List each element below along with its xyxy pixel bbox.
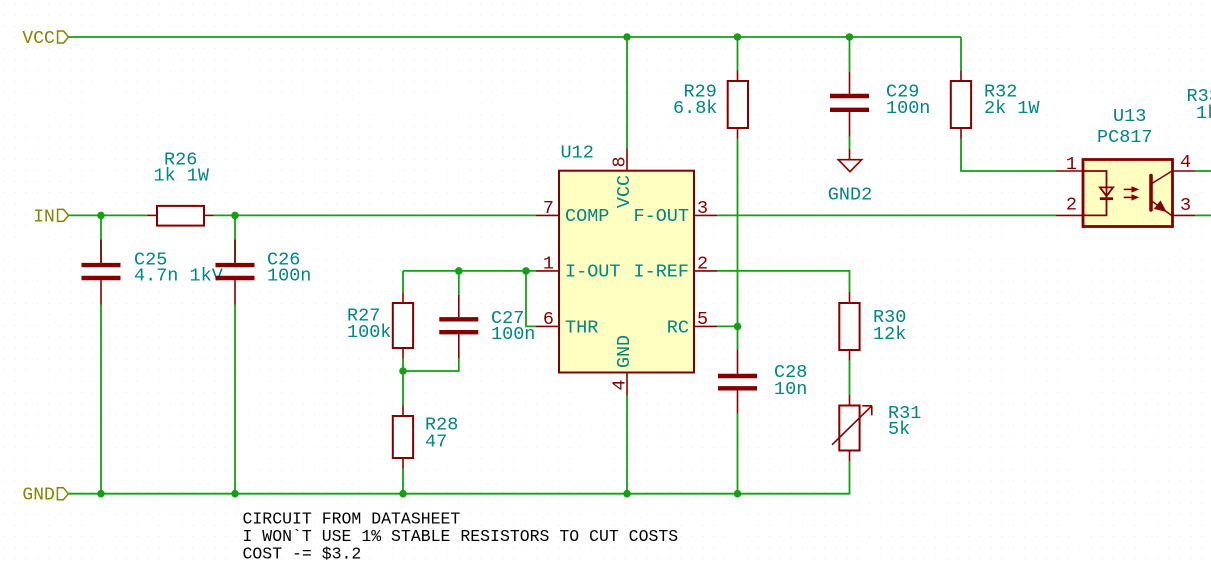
- node junction IN/C25: [97, 212, 105, 220]
- node junction GND/U12 pin4: [623, 490, 631, 498]
- global label VCC: [22, 29, 68, 49]
- U13 light arrows: [1124, 187, 1138, 200]
- U12 pin 4 GND: [610, 335, 636, 396]
- U13 pin 2: [1056, 195, 1083, 216]
- U12 pin 2 I-REF: [633, 254, 717, 283]
- svg-text:6.8k: 6.8k: [673, 98, 717, 119]
- wire F-OUT to U13 pin2: [717, 214, 1056, 216]
- U12 pin 7 COMP: [536, 198, 609, 227]
- wire R26 to U12 pin7: [214, 214, 537, 216]
- svg-text:I-REF: I-REF: [633, 262, 689, 283]
- node junction VCC/C29: [846, 33, 854, 41]
- svg-text:F-OUT: F-OUT: [633, 206, 689, 227]
- wire U12 pin8 riser: [626, 37, 628, 149]
- U12 pin 8 VCC: [610, 149, 636, 209]
- wire I-OUT line: [403, 270, 536, 272]
- wire RC to junction: [717, 325, 738, 327]
- wire U13 pin4 out: [1195, 170, 1211, 172]
- op-amp U12 body: [559, 143, 694, 373]
- wire VCC rail: [69, 36, 962, 38]
- svg-text:3: 3: [697, 198, 708, 219]
- node junction VCC/R29: [734, 33, 742, 41]
- svg-text:4.7n 1kV: 4.7n 1kV: [134, 266, 223, 287]
- svg-text:1: 1: [1066, 154, 1077, 175]
- svg-text:2: 2: [697, 254, 708, 275]
- wire U13 pin3 out: [1195, 214, 1211, 216]
- wire R29 top: [737, 37, 739, 71]
- capacitor C27: [439, 271, 535, 358]
- wire C28 to GND rail: [737, 414, 739, 494]
- svg-text:10n: 10n: [774, 379, 807, 400]
- wire R32 to U13 pin1: [961, 139, 1056, 172]
- svg-text:100n: 100n: [267, 266, 311, 287]
- resistor R26: [148, 150, 214, 226]
- global label IN: [33, 207, 68, 227]
- U13 LED diode: [1083, 171, 1113, 215]
- svg-text:VCC: VCC: [614, 175, 635, 208]
- svg-text:THR: THR: [565, 317, 598, 338]
- capacitor C29: [830, 72, 930, 137]
- node junction GND/C28: [734, 490, 742, 498]
- svg-text:GND: GND: [22, 486, 54, 506]
- capacitor C25: [82, 215, 223, 304]
- svg-text:100n: 100n: [886, 98, 930, 119]
- svg-text:4: 4: [1180, 152, 1191, 173]
- node junction VCC/pin8: [623, 33, 631, 41]
- resistor R27: [347, 271, 413, 359]
- svg-text:7: 7: [543, 198, 554, 219]
- node junction IN/C26: [231, 212, 239, 220]
- wire U12 pin4 to GND rail: [626, 396, 628, 494]
- node junction R27/C27/R28: [399, 367, 407, 375]
- svg-text:I WON`T USE 1% STABLE RESISTOR: I WON`T USE 1% STABLE RESISTORS TO CUT C…: [243, 527, 679, 546]
- svg-text:6: 6: [543, 309, 554, 330]
- transistor U13 optocoupler body: [1083, 106, 1173, 227]
- ground GND2: [828, 149, 872, 206]
- wire C29 to GND2: [849, 137, 851, 150]
- svg-text:12k: 12k: [873, 324, 906, 345]
- wire GND rail: [68, 493, 403, 495]
- wire IN to R26: [69, 214, 148, 216]
- wire THR branch: [526, 271, 536, 327]
- resistor R33 (partially visible): [1187, 86, 1211, 124]
- global label GND: [22, 486, 68, 506]
- wire C27 bottom to junction: [403, 358, 459, 371]
- svg-text:I-OUT: I-OUT: [565, 262, 621, 283]
- svg-text:5: 5: [697, 309, 708, 330]
- node junction I-OUT/THR branch: [522, 267, 530, 275]
- node junction GND/C25: [97, 490, 105, 498]
- wire I-REF to R30: [717, 271, 850, 292]
- U13 pin 3: [1173, 195, 1196, 216]
- svg-text:1k 1W: 1k 1W: [154, 166, 210, 187]
- svg-text:8: 8: [610, 156, 631, 167]
- node junction GND/R28: [399, 490, 407, 498]
- resistor R31 (variable): [832, 395, 921, 461]
- svg-text:GND: GND: [614, 335, 635, 368]
- node junction I-OUT/C27: [455, 267, 463, 275]
- svg-text:IN: IN: [33, 207, 55, 227]
- resistor R29: [673, 71, 748, 139]
- U13 phototransistor: [1151, 171, 1172, 215]
- wire C25 to GND rail: [100, 305, 102, 494]
- U12 pin 5 RC: [667, 309, 717, 338]
- svg-text:RC: RC: [667, 317, 689, 338]
- wire C26 to GND rail: [234, 305, 236, 494]
- svg-text:PC817: PC817: [1097, 127, 1153, 148]
- wire C29 top: [849, 37, 851, 72]
- svg-text:4: 4: [610, 379, 631, 390]
- svg-text:2: 2: [1066, 195, 1077, 216]
- wire R27 bottom to junction: [402, 359, 404, 406]
- svg-text:COST -= $3.2: COST -= $3.2: [243, 545, 362, 564]
- svg-text:COMP: COMP: [565, 206, 609, 227]
- note text: [243, 509, 679, 563]
- capacitor C26: [216, 215, 312, 304]
- resistor R30: [839, 292, 906, 361]
- node junction GND/C26: [231, 490, 239, 498]
- wire R29 bottom to RC junction and C28: [737, 139, 739, 350]
- svg-text:CIRCUIT FROM DATASHEET: CIRCUIT FROM DATASHEET: [243, 509, 461, 528]
- svg-text:1: 1: [543, 254, 554, 275]
- U13 pin 4: [1173, 152, 1196, 173]
- svg-text:2k 1W: 2k 1W: [984, 98, 1040, 119]
- svg-text:47: 47: [425, 432, 447, 453]
- U12 pin 1 I-OUT: [536, 254, 621, 283]
- svg-text:3: 3: [1180, 195, 1191, 216]
- svg-text:U13: U13: [1113, 106, 1146, 127]
- svg-text:GND2: GND2: [828, 185, 872, 206]
- resistor R28: [393, 406, 459, 469]
- svg-text:5k: 5k: [888, 419, 910, 440]
- wire R30 to R31: [849, 361, 851, 396]
- wire R32 top: [960, 37, 962, 71]
- node junction RC/R29/C28: [734, 323, 742, 331]
- wire R28 to GND rail: [402, 469, 404, 494]
- svg-text:U12: U12: [561, 143, 594, 164]
- capacitor C28: [718, 350, 807, 414]
- U13 pin 1: [1056, 154, 1083, 175]
- resistor R32: [951, 71, 1041, 139]
- svg-text:1k: 1k: [1196, 103, 1211, 124]
- U12 pin 3 F-OUT: [633, 198, 717, 227]
- svg-text:VCC: VCC: [22, 29, 55, 49]
- svg-text:100k: 100k: [347, 322, 391, 343]
- svg-text:100n: 100n: [491, 324, 535, 345]
- wire R31 to GND rail: [403, 461, 850, 494]
- U12 pin 6 THR: [536, 309, 598, 338]
